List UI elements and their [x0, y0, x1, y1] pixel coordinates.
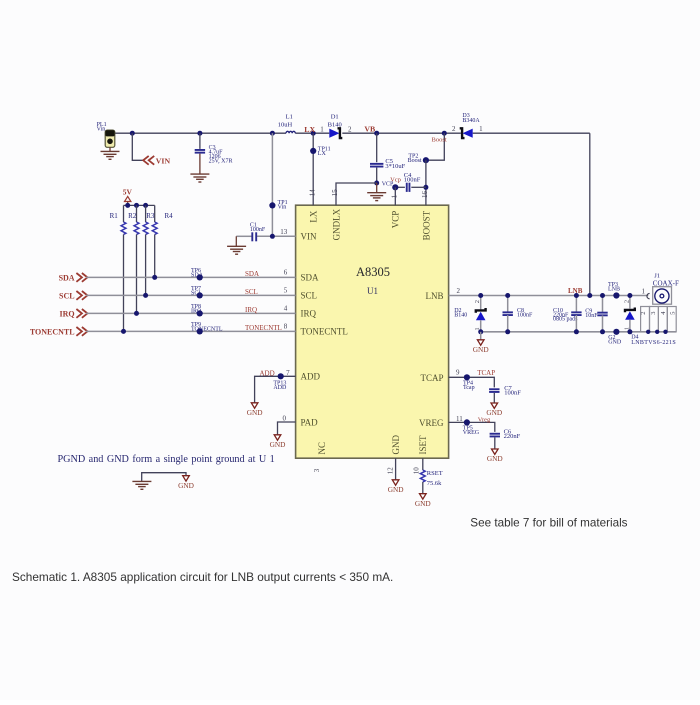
svg-text:GNDLX: GNDLX: [331, 208, 341, 240]
svg-text:6: 6: [284, 268, 288, 276]
svg-text:GND: GND: [270, 440, 286, 449]
wire C9 bottom: [602, 315, 604, 331]
svg-text:LNB: LNB: [426, 291, 444, 301]
svg-text:GND: GND: [391, 435, 401, 455]
svg-text:7: 7: [286, 369, 290, 377]
svg-text:TONECNTL: TONECNTL: [191, 326, 223, 332]
wire C3 top: [199, 133, 201, 149]
ground arrow ADD: [251, 403, 258, 408]
ground arrow GND pin: [392, 480, 399, 485]
svg-text:GND: GND: [608, 339, 622, 345]
wire PAD pin 0: [278, 422, 296, 435]
svg-text:SDA: SDA: [59, 273, 75, 282]
wire C8 top: [507, 296, 509, 313]
wire SCL bus: [86, 294, 296, 296]
resistor R4: [154, 205, 156, 222]
diode D4 TVS: [625, 308, 635, 313]
svg-text:See table 7 for bill of materi: See table 7 for bill of materials: [470, 517, 627, 530]
svg-text:TONECNTL: TONECNTL: [245, 324, 282, 332]
svg-text:TCAP: TCAP: [420, 373, 443, 383]
node C9 top: [600, 293, 605, 298]
wire C6 to ground: [494, 437, 496, 449]
svg-text:GND: GND: [415, 499, 431, 508]
svg-text:IRQ: IRQ: [191, 308, 202, 314]
ground arrow under D2: [477, 340, 484, 345]
wire D2 bottom: [480, 320, 482, 332]
svg-text:1: 1: [320, 125, 324, 133]
svg-text:15: 15: [331, 189, 339, 197]
capacitor C10: [571, 311, 581, 313]
wire TONECNTL bus: [86, 330, 296, 332]
connector J1 body square: [653, 287, 672, 305]
wire VB to C5: [376, 133, 378, 162]
node R3 top: [143, 203, 148, 208]
wire C8 bottom: [507, 315, 509, 332]
svg-text:12: 12: [386, 467, 394, 475]
wire LX node to D1 anode: [313, 132, 329, 134]
svg-text:3: 3: [313, 468, 321, 472]
port chevron SCL: [76, 291, 82, 300]
wire VIN rail from PL1 to L1: [115, 132, 286, 134]
svg-text:IRQ: IRQ: [301, 309, 317, 319]
svg-text:100nF: 100nF: [504, 389, 521, 396]
ground PGND under C5: [367, 192, 386, 194]
diode D2 B140: [476, 308, 486, 313]
wire right corner down to LNB rail: [589, 133, 591, 295]
node C10 top: [574, 293, 579, 298]
svg-text:16: 16: [421, 191, 429, 199]
capacitor C3: [195, 149, 205, 151]
wire LNB return rail: [481, 331, 677, 333]
svg-text:3*10uF: 3*10uF: [385, 163, 405, 170]
port chevron TONECNTL: [76, 327, 82, 336]
svg-text:LX: LX: [318, 151, 327, 157]
wire VCP node to C4: [395, 186, 405, 188]
svg-text:2: 2: [640, 312, 647, 315]
svg-text:8: 8: [284, 322, 288, 330]
svg-text:LNB: LNB: [608, 286, 620, 292]
svg-text:75.6k: 75.6k: [427, 480, 442, 487]
test point TP6: [197, 274, 203, 280]
ground arrow RSET: [420, 494, 427, 499]
svg-text:R3: R3: [146, 212, 155, 220]
node D4 top: [627, 293, 632, 298]
wire L1 to LX node: [295, 132, 313, 134]
svg-text:BOOST: BOOST: [421, 210, 431, 240]
svg-text:100nF: 100nF: [250, 227, 266, 233]
svg-text:GND: GND: [487, 454, 503, 463]
ground arrow PAD: [274, 435, 281, 440]
node GNDLX junction: [374, 181, 379, 186]
node D2 bottom: [478, 329, 483, 334]
test point TP9: [197, 328, 203, 334]
svg-text:B140: B140: [328, 122, 342, 129]
node R2 top: [134, 203, 139, 208]
svg-text:R4: R4: [165, 212, 174, 220]
svg-text:Tcap: Tcap: [463, 385, 475, 391]
wire C10 top: [575, 296, 577, 313]
wire Boost branch: [426, 133, 444, 160]
wire IRQ bus: [86, 312, 296, 314]
svg-text:Boost: Boost: [408, 158, 422, 164]
svg-text:PGND and GND form a single poi: PGND and GND form a single point ground …: [58, 454, 275, 465]
svg-text:GND: GND: [473, 345, 489, 354]
node R pullup junction on SDA: [152, 275, 157, 280]
svg-text:2: 2: [452, 125, 456, 133]
node 5V entry: [125, 203, 130, 208]
capacitor C4: [406, 183, 408, 192]
svg-text:SCL: SCL: [59, 291, 75, 300]
test point TP11: [310, 148, 316, 154]
test point TP7: [197, 292, 203, 298]
svg-text:PAD: PAD: [301, 417, 319, 427]
svg-text:VCP: VCP: [382, 182, 394, 188]
test point TP13: [278, 373, 284, 379]
wire GNDLX node to ground: [376, 183, 378, 193]
connector PL1 Vin jack: [105, 130, 115, 147]
node C9 bottom: [600, 329, 605, 334]
svg-text:B340A: B340A: [462, 118, 480, 124]
node pin13 junction: [270, 234, 275, 239]
wire C5 to GNDLX node: [376, 168, 378, 183]
capacitor C7: [489, 388, 499, 390]
test point TP2: [423, 157, 429, 163]
svg-text:2: 2: [623, 300, 630, 303]
svg-text:VIN: VIN: [156, 156, 171, 165]
svg-text:25V, X7R: 25V, X7R: [209, 158, 233, 164]
svg-text:2: 2: [474, 300, 481, 303]
svg-text:9: 9: [456, 369, 460, 377]
svg-text:0: 0: [283, 414, 287, 422]
ground under C1: [227, 245, 246, 247]
svg-text:LNBTVS6-221S: LNBTVS6-221S: [631, 340, 676, 346]
node C8 top: [505, 293, 510, 298]
svg-text:TONECNTL: TONECNTL: [301, 327, 348, 337]
wire VIN pin 13: [257, 235, 296, 237]
svg-text:2: 2: [456, 287, 460, 295]
svg-text:5: 5: [670, 312, 677, 315]
port chevron VIN: [143, 156, 149, 165]
node TP1 branch junction: [270, 131, 275, 136]
wire TP1 vertical: [271, 133, 273, 236]
svg-text:ADD: ADD: [273, 385, 287, 391]
wire GND pin 12: [395, 458, 397, 480]
wire C3 to ground: [199, 154, 201, 175]
svg-text:SDA: SDA: [245, 270, 259, 278]
wire D1 cathode to VB node to D3: [342, 132, 461, 134]
svg-text:0805 pads: 0805 pads: [553, 317, 578, 323]
wire D2 top: [480, 296, 482, 310]
port chevron SDA: [76, 273, 82, 282]
J1 pin 1 entry: [647, 293, 650, 298]
ground under PL1: [101, 150, 120, 152]
node BOOST C4 junction: [423, 185, 428, 190]
node Boost branch junction: [442, 131, 447, 136]
capacitor C5: [370, 163, 383, 165]
node C3 junction: [197, 131, 202, 136]
svg-text:Vreg: Vreg: [478, 416, 491, 423]
resistor R3: [145, 205, 147, 222]
svg-text:SCL: SCL: [301, 291, 318, 301]
port chevron IRQ: [76, 309, 82, 318]
wire TCAP pin 9: [449, 377, 495, 387]
wire VCP pin 1: [394, 187, 396, 205]
wire PL1 to ground: [109, 147, 111, 151]
svg-text:5V: 5V: [123, 188, 133, 197]
svg-text:VCP: VCP: [391, 211, 401, 229]
svg-text:Boost: Boost: [432, 137, 447, 144]
svg-text:100nF: 100nF: [404, 177, 421, 184]
svg-text:5: 5: [284, 286, 288, 294]
capacitor C6: [490, 433, 500, 435]
test point TP3: [613, 292, 619, 298]
svg-text:TCAP: TCAP: [477, 369, 495, 377]
svg-text:GND: GND: [388, 485, 404, 494]
svg-text:D1: D1: [331, 113, 339, 120]
test point VCP: [392, 184, 398, 190]
svg-text:LX: LX: [309, 210, 319, 222]
wire C9 top: [602, 296, 604, 313]
node LX junction: [311, 131, 316, 136]
wire D4 top: [629, 296, 631, 309]
ground under C3: [190, 173, 209, 175]
node R pullup junction on TONECNTL: [121, 329, 126, 334]
svg-text:14: 14: [308, 189, 316, 197]
node VIN branch junction: [130, 131, 135, 136]
wire C7 to ground: [493, 393, 495, 403]
wire 5V rail: [124, 204, 155, 206]
connector J1 shield pin boxes: [641, 307, 650, 332]
resistor RSET: [420, 470, 425, 482]
node VB junction: [374, 131, 379, 136]
svg-text:10uH: 10uH: [278, 121, 293, 128]
capacitor C8: [503, 311, 513, 313]
svg-text:VB: VB: [364, 124, 375, 133]
resistor R2: [136, 205, 138, 222]
test point TP8: [197, 310, 203, 316]
svg-text:220nF: 220nF: [504, 433, 521, 440]
svg-text:IRQ: IRQ: [59, 309, 74, 318]
wire ISET pin 10: [422, 458, 424, 470]
svg-text:L1: L1: [286, 113, 293, 120]
node D3 feed junction: [587, 293, 592, 298]
wire D3 anode to right corner: [473, 132, 590, 134]
node R pullup junction on IRQ: [134, 311, 139, 316]
wire D2 ground stub: [480, 332, 482, 340]
ground arrow C7: [491, 403, 498, 408]
svg-text:4: 4: [284, 304, 288, 312]
node D2 top: [478, 293, 483, 298]
diode D1 B140: [329, 129, 339, 138]
svg-text:10: 10: [412, 467, 420, 475]
svg-text:SCL: SCL: [245, 288, 258, 296]
ground PGND symbol: [132, 480, 151, 482]
wire VREG pin 11: [449, 422, 495, 432]
svg-text:R1: R1: [110, 212, 119, 220]
wire PGND tie: [142, 473, 186, 482]
inductor L1: [286, 131, 295, 133]
node J1 shield junctions: [646, 330, 650, 334]
svg-text:13: 13: [280, 228, 288, 236]
svg-text:ISET: ISET: [418, 435, 428, 455]
wire LX pin 14: [312, 133, 314, 205]
wire RSET to ground: [422, 482, 424, 494]
svg-text:SDA: SDA: [301, 273, 320, 283]
svg-text:B140: B140: [454, 313, 467, 319]
svg-text:VREG: VREG: [463, 430, 480, 436]
capacitor C9: [597, 312, 607, 314]
wire LNB rail: [449, 295, 649, 297]
ground arrow C6: [492, 449, 499, 454]
test point TP5: [464, 419, 470, 425]
svg-text:3: 3: [650, 312, 657, 315]
svg-text:SDA: SDA: [191, 272, 204, 278]
svg-text:VREG: VREG: [419, 418, 444, 428]
connector J1 coax circle: [655, 289, 669, 303]
wire C1 to ground: [235, 236, 237, 246]
svg-text:TONECNTL: TONECNTL: [30, 327, 75, 336]
wire ADD pin 7: [255, 376, 296, 403]
svg-text:1: 1: [391, 194, 399, 198]
svg-text:1: 1: [479, 125, 483, 133]
svg-text:GND: GND: [178, 481, 194, 490]
wire TP2 to BOOST pin 16: [425, 160, 427, 205]
wire GNDLX node to pin 15: [336, 183, 377, 205]
svg-text:1: 1: [642, 288, 646, 296]
ground arrow GND tie: [183, 476, 190, 481]
svg-text:10nF: 10nF: [585, 313, 598, 319]
svg-text:NC: NC: [317, 442, 327, 455]
svg-text:A8305: A8305: [356, 265, 390, 279]
svg-text:R2: R2: [128, 212, 137, 220]
diode D3 B340A: [460, 128, 465, 138]
svg-text:Vin: Vin: [278, 205, 287, 211]
node C8 bottom: [505, 329, 510, 334]
IC U1 A8305 body: [296, 205, 449, 458]
wire C4 to BOOST pin: [411, 186, 426, 188]
svg-text:ADD: ADD: [301, 372, 321, 382]
wire SDA bus: [86, 276, 296, 278]
test point TP4: [464, 374, 470, 380]
svg-text:2: 2: [348, 125, 352, 133]
wire VIN port stub: [132, 133, 143, 160]
wire D4 bottom: [629, 320, 631, 332]
capacitor C1: [251, 232, 253, 241]
svg-text:RSET: RSET: [427, 470, 443, 477]
svg-text:ADD: ADD: [260, 370, 275, 378]
svg-text:VIN: VIN: [301, 232, 317, 242]
node R pullup junction on SCL: [143, 293, 148, 298]
svg-text:11: 11: [456, 415, 463, 423]
resistor R1: [123, 205, 125, 222]
svg-text:LX: LX: [304, 125, 315, 134]
svg-text:SCL: SCL: [191, 290, 202, 296]
wire C10 bottom: [575, 315, 577, 332]
node D4 bottom: [627, 329, 632, 334]
svg-text:Schematic 1. A8305 application: Schematic 1. A8305 application circuit f…: [12, 570, 393, 584]
svg-text:Vin: Vin: [97, 127, 106, 133]
ground part G2: [613, 329, 619, 335]
svg-text:100nF: 100nF: [517, 312, 533, 318]
svg-text:J1: J1: [654, 272, 660, 279]
svg-text:GND: GND: [247, 408, 263, 417]
svg-text:U1: U1: [367, 286, 378, 296]
svg-text:IRQ: IRQ: [245, 306, 257, 314]
node C10 bottom: [574, 329, 579, 334]
test point TP1: [269, 202, 275, 208]
